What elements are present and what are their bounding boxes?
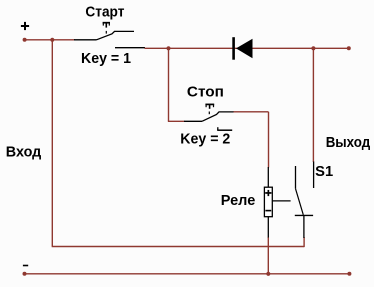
switch S1 top terminal (313, 162, 315, 189)
switch S1 blade (296, 189, 304, 215)
switch SB1 plunger stem (105, 23, 107, 28)
wire left vertical down (51, 40, 53, 247)
wire inner bottom rail (52, 246, 304, 248)
switch SB1 left terminal (74, 39, 97, 41)
wire relay top vertical (268, 112, 270, 168)
node junction relay bottom (266, 272, 270, 276)
svg-text:S1: S1 (315, 164, 333, 180)
switch SB2 plunger T left tick (205, 104, 207, 107)
switch SB2 plunger T right tick (213, 104, 215, 107)
svg-text:Key = 2: Key = 2 (180, 132, 230, 148)
wire S1 top vertical (312, 48, 314, 162)
switch SB2 plunger dash (208, 112, 210, 115)
switch SB1 right terminal (115, 47, 145, 49)
node output top terminal dot (347, 46, 351, 50)
node minus terminal dot (23, 272, 27, 276)
switch SB1 plunger dash (105, 31, 107, 34)
switch SB2 left terminal (184, 120, 202, 122)
node junction left vertical (50, 38, 54, 42)
svg-text:Реле: Реле (221, 193, 256, 209)
switch SB2 blade and right terminal (202, 112, 234, 121)
node junction Stop branch (166, 46, 170, 50)
svg-text:Старт: Старт (85, 4, 124, 20)
relay K1 top terminal (267, 167, 269, 187)
svg-text:Вход: Вход (6, 145, 42, 161)
switch SB1 blade (97, 31, 135, 39)
switch SB1 plunger T bar (103, 22, 110, 24)
node minus terminal label (23, 265, 28, 267)
relay K1 coil box (264, 187, 272, 217)
svg-text:Key = 1: Key = 1 (81, 51, 131, 67)
wire bottom outer rail (25, 273, 350, 275)
wire top rail right of Start switch (145, 47, 349, 49)
wire Stop branch vertical (168, 48, 170, 121)
wire + terminal to Start switch (25, 39, 75, 41)
wire Stop to relay horizontal (234, 111, 269, 113)
node plus terminal dot (23, 38, 27, 42)
diode VD1 triangle (236, 39, 253, 59)
diode VD1 cathode bar (232, 37, 235, 60)
switch S1 throw line (295, 166, 297, 189)
switch SB2 plunger T bar (205, 103, 214, 105)
switch SB1 plunger T right tick (108, 23, 110, 26)
svg-text:Стоп: Стоп (187, 85, 224, 101)
switch SB2 open contact bar (217, 129, 232, 131)
switch SB1 plunger T left tick (102, 23, 104, 26)
switch SB2 open contact tick (217, 127, 219, 130)
node junction S1 branch (311, 46, 315, 50)
svg-text:Выход: Выход (326, 135, 371, 151)
relay K1 bottom terminal (267, 217, 269, 238)
relay K1 armature link line (272, 200, 290, 202)
wire S1 bottom riser (303, 237, 305, 247)
node + (plus input terminal label) (21, 25, 29, 27)
switch SB2 plunger stem (209, 104, 211, 108)
switch S1 bottom contact bar (295, 214, 313, 216)
wire relay bottom vertical (267, 238, 269, 274)
relay K1 minus polarity (265, 210, 271, 212)
switch S1 bottom terminal (303, 215, 305, 238)
relay K1 plus polarity (265, 192, 271, 194)
node output bottom terminal dot (347, 272, 351, 276)
wire Stop branch horizontal (168, 120, 185, 122)
